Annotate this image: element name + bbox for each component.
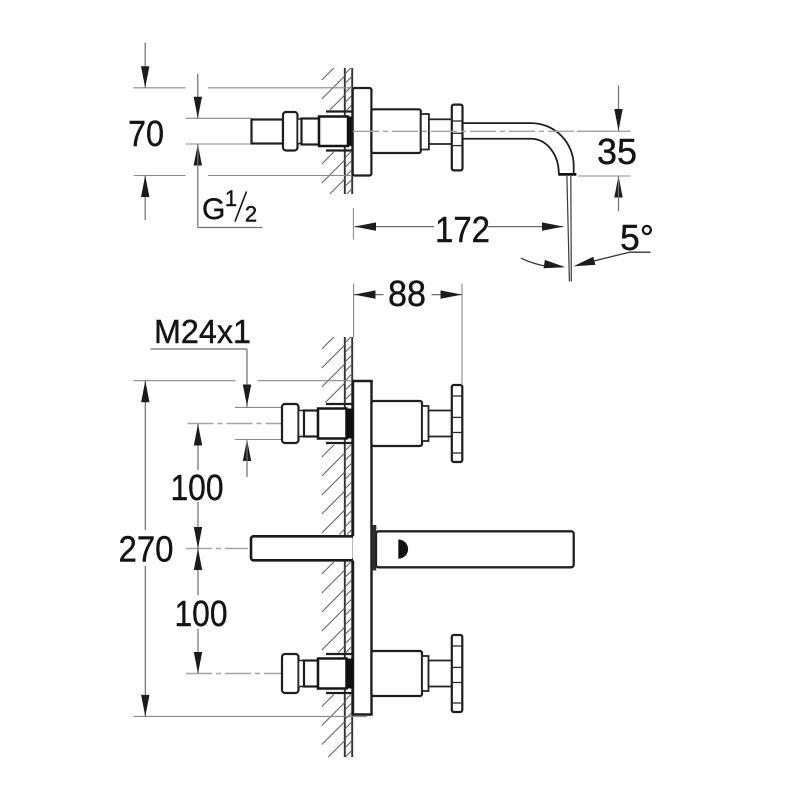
svg-text:270: 270: [119, 529, 174, 570]
svg-text:5°: 5°: [620, 217, 654, 258]
svg-text:100: 100: [171, 467, 224, 508]
svg-text:M24x1: M24x1: [154, 313, 251, 350]
svg-text:2: 2: [245, 202, 257, 227]
svg-text:G: G: [202, 193, 225, 226]
svg-text:1: 1: [225, 186, 237, 211]
svg-text:100: 100: [175, 593, 228, 634]
svg-text:172: 172: [435, 209, 490, 250]
svg-text:88: 88: [388, 273, 426, 314]
svg-text:70: 70: [128, 113, 164, 154]
svg-text:35: 35: [597, 131, 637, 172]
